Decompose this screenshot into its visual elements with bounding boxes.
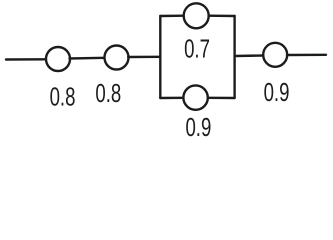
parallel block left vertical rail [159,16,161,98]
wire: parallel block to circle 3 [235,54,264,57]
parallel block bottom rail (left segment) [160,97,183,100]
component circle 1 (0.8) [46,47,70,71]
component circle 3 (0.9) [263,43,287,67]
svg-text:0.9: 0.9 [185,113,211,140]
parallel block top rail (left segment) [160,14,184,17]
svg-text:0.8: 0.8 [50,83,76,112]
svg-text:0.9: 0.9 [264,78,290,107]
wire: left lead-in [6,58,46,61]
component circle top branch (0.7) [184,3,209,28]
parallel block bottom rail (right segment) [208,97,235,100]
component circle 2 (0.8) [105,46,129,70]
component circle bottom branch (0.9) [183,85,207,109]
parallel block top rail (right segment) [209,14,235,17]
wire: circle 2 to parallel block [128,56,160,59]
svg-text:0.7: 0.7 [184,35,210,64]
wire: between circle 1 and circle 2 [70,57,106,60]
wire: right lead-out [287,54,326,57]
parallel block right vertical rail [233,16,235,98]
svg-text:0.8: 0.8 [95,79,121,108]
